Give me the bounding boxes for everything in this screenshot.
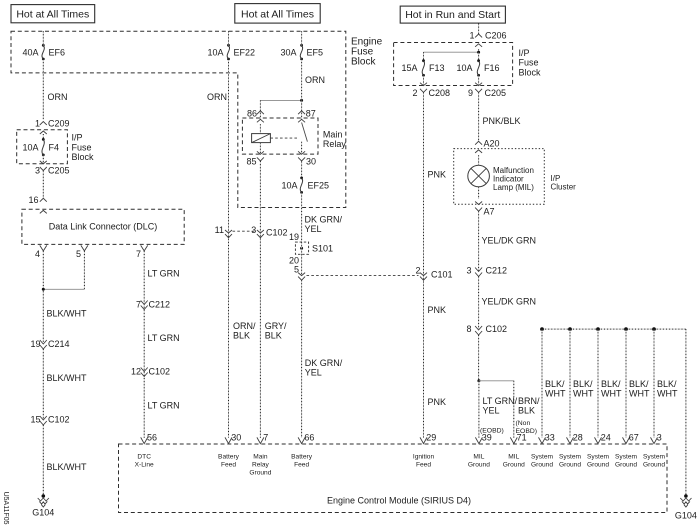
wire relay pin 30 to fuse EF25 (301, 162, 303, 178)
svg-text:56: 56 (147, 433, 157, 443)
ECM pin number 67 (629, 433, 639, 443)
splice S101 cavity 19 (289, 232, 299, 242)
wire C206 to junction inside fuse block (478, 49, 480, 52)
pin number 87 (306, 109, 316, 119)
pin number 3 of C102 (251, 225, 256, 235)
svg-text:BLK/WHT: BLK/WHT (47, 373, 88, 383)
connector name C208 (429, 88, 451, 98)
label LT GRN (lower) (148, 401, 180, 411)
svg-text:Fuse: Fuse (72, 142, 92, 152)
svg-text:3: 3 (251, 225, 256, 235)
ECM pin number 7 (263, 433, 268, 443)
svg-text:10A: 10A (281, 180, 297, 190)
label ORN (EF22 feed) (207, 92, 227, 102)
pin number 15 of C102 (30, 415, 40, 425)
svg-text:S101: S101 (312, 244, 333, 254)
pin number 16 (28, 195, 38, 205)
svg-text:BLK/: BLK/ (545, 379, 565, 389)
svg-text:Ground: Ground (503, 462, 525, 469)
svg-text:PNK: PNK (428, 397, 447, 407)
wire BLK/WHT C102 to ground G104 (42, 425, 44, 496)
svg-text:C214: C214 (48, 339, 70, 349)
label ORN/BLK line2 (233, 330, 250, 340)
junction system ground bus 3 (596, 327, 600, 331)
relay pin 30 connector (chevron pair) (298, 151, 305, 161)
svg-text:4: 4 (35, 249, 40, 259)
svg-text:YEL/DK GRN: YEL/DK GRN (482, 236, 537, 246)
svg-text:Block: Block (351, 57, 376, 68)
wire pin 5 branch to junction (43, 288, 84, 290)
connector C101 pin 2 chevron (420, 273, 427, 281)
ECM pin 71 function label (503, 454, 525, 469)
svg-text:I/P: I/P (72, 133, 83, 143)
connector name C102 (center-left) (149, 366, 171, 376)
svg-text:LT GRN/: LT GRN/ (483, 396, 518, 406)
inline connector C212 pin 3 (double chevron) (475, 268, 482, 277)
svg-text:30A: 30A (280, 47, 296, 57)
ECM pin number 71 (517, 433, 527, 443)
svg-text:EF5: EF5 (307, 47, 324, 57)
label BRN/BLK line2 (518, 405, 535, 415)
svg-text:C102: C102 (486, 324, 508, 334)
label BLK/WHT sys5 line2 (657, 389, 678, 399)
svg-text:WHT: WHT (629, 389, 650, 399)
DLC pin 7 chevron (141, 245, 148, 251)
ECM pin number 24 (601, 433, 611, 443)
wire BLK/WHT system ground 1 (541, 329, 543, 438)
relay actuation dashed link (270, 137, 299, 139)
pin number 7 (136, 249, 141, 259)
label BRN/BLK line1 (518, 396, 540, 406)
svg-text:BLK: BLK (518, 405, 535, 415)
label BLK/WHT sys3 line2 (601, 389, 622, 399)
wire fuse F4 to connector C205 (42, 155, 44, 163)
svg-text:Block: Block (72, 152, 95, 162)
svg-text:C212: C212 (149, 299, 171, 309)
svg-text:C102: C102 (149, 366, 171, 376)
label BLK/WHT sys4 line1 (629, 379, 649, 389)
wire BLK/WHT C214 to C102 (42, 349, 44, 419)
label LT GRN (middle) (148, 333, 180, 343)
label BLK/WHT sys1 line2 (545, 389, 566, 399)
header box "Hot in Run and Start" (400, 6, 505, 23)
ECM pin 66 chevron (298, 437, 305, 443)
wire relay contact to pin 30 (301, 142, 303, 154)
wire BLK/WHT system ground 2 (569, 329, 571, 438)
label ORN (EF6 feed) (48, 92, 68, 102)
svg-text:BRN/: BRN/ (518, 396, 540, 406)
inline connector C214 pin 19 (double chevron) (40, 340, 47, 349)
svg-text:39: 39 (482, 433, 492, 443)
wire fuse F16 to connector C205 (478, 75, 480, 85)
wire C205 to DLC pin 16 (42, 171, 44, 199)
svg-text:F4: F4 (49, 142, 60, 152)
wire ORN from EF5 to relay junction (301, 59, 303, 100)
svg-text:Ignition: Ignition (413, 454, 435, 461)
svg-text:EF25: EF25 (308, 180, 330, 190)
svg-text:15A: 15A (401, 63, 417, 73)
svg-text:C206: C206 (485, 30, 507, 40)
label DK GRN/YEL line1 (upper) (305, 215, 343, 225)
ECM pin number 39 (482, 433, 492, 443)
label "Malfunction Indicator Lamp (MIL)" (493, 166, 534, 192)
pin number 19 of C214 (30, 339, 40, 349)
svg-text:5: 5 (76, 249, 81, 259)
svg-text:LT GRN: LT GRN (148, 269, 180, 279)
svg-text:Ground: Ground (643, 462, 665, 469)
svg-text:Main: Main (253, 454, 268, 461)
svg-text:87: 87 (306, 109, 316, 119)
pin number 2 of C101 (415, 266, 420, 276)
splice S101 (dashed box with dot) (295, 242, 333, 254)
ECM pin 29 chevron (420, 437, 427, 443)
wire band top to fuse EF5 (301, 31, 303, 45)
label BLK/WHT (upper) (47, 309, 88, 319)
svg-text:LT GRN: LT GRN (148, 333, 180, 343)
ECM pin 7 chevron (257, 437, 264, 443)
junction system ground bus 1 (540, 327, 544, 331)
svg-text:Ground: Ground (531, 462, 553, 469)
svg-text:C212: C212 (486, 266, 508, 276)
wire YEL/DK GRN from C212 to C102 (478, 277, 480, 330)
connector name C205 (48, 166, 70, 176)
I/P fuse block (right) dashed box (394, 43, 513, 86)
junction MIL ground split (477, 379, 480, 382)
wire to main relay pin 87 (301, 100, 303, 119)
wire MIL lamp to cluster pin A7 (478, 187, 480, 199)
label BLK/WHT sys2 line1 (573, 379, 593, 389)
junction system ground bus 4 (624, 327, 628, 331)
svg-text:3: 3 (35, 166, 40, 176)
svg-text:BLK: BLK (233, 330, 250, 340)
ECM pin 71 chevron (510, 437, 517, 443)
engine fuse block outline (dashed) (11, 31, 346, 207)
svg-text:7: 7 (263, 433, 268, 443)
svg-text:(Non: (Non (516, 420, 531, 427)
connector C205 pin 3 (chevron pair) (40, 161, 47, 171)
connector C102 tie line (pins 11-3) (233, 230, 256, 232)
svg-text:Feed: Feed (221, 462, 236, 469)
label "Engine Control Module (SIRIUS D4)" (327, 496, 471, 506)
label LT GRN (upper) (148, 269, 180, 279)
wire through splice S101 (301, 242, 303, 254)
svg-text:F13: F13 (429, 63, 445, 73)
wire BLK/WHT from DLC pin 4 down (42, 251, 44, 342)
svg-text:LT GRN: LT GRN (148, 401, 180, 411)
svg-text:System: System (531, 454, 553, 461)
label BLK/WHT (middle) (47, 373, 88, 383)
ECM pin 56 chevron (141, 437, 148, 443)
engine control module dashed box (119, 444, 668, 513)
label "Main Relay" (323, 130, 347, 150)
label DK GRN/YEL line1 (lower) (305, 358, 343, 368)
ECM pin number 66 (304, 433, 314, 443)
svg-text:ORN: ORN (207, 92, 227, 102)
wire junction to fuse F13 (horizontal) (424, 51, 479, 53)
DLC pin 16 connector (chevron pair) (40, 198, 47, 213)
svg-text:Block: Block (519, 67, 542, 77)
svg-text:2: 2 (415, 266, 420, 276)
ECM pin 24 function label (587, 454, 609, 469)
malfunction indicator lamp MIL (bulb symbol) (468, 165, 490, 187)
ECM pin 67 chevron (623, 437, 630, 443)
wire BLK/WHT system ground 4 (625, 329, 627, 438)
svg-text:WHT: WHT (657, 389, 678, 399)
svg-text:C102: C102 (48, 415, 70, 425)
junction of DLC pins 4 and 5 (42, 288, 45, 291)
connector C102 pin 11 chevron (225, 230, 232, 238)
pin name A20 (484, 139, 500, 149)
svg-text:PNK: PNK (428, 305, 447, 315)
svg-text:Engine Control Module (SIRIUS: Engine Control Module (SIRIUS D4) (327, 496, 471, 506)
wire from Hot in Run box to connector C206 (478, 24, 480, 35)
ground G104 (right) (675, 494, 697, 520)
wire band top to fuse EF22 (228, 31, 230, 45)
svg-text:System: System (559, 454, 581, 461)
ECM pin 28 chevron (567, 437, 574, 443)
ECM pin 56 function label (135, 454, 154, 469)
svg-text:ORN: ORN (305, 75, 325, 85)
ECM pin 39 function label (468, 454, 490, 469)
pin number 5 of C101 (294, 265, 299, 275)
wire relay coil bottom lead (259, 143, 261, 154)
wire BLK/WHT bus to ground G104 (right) (685, 329, 687, 496)
I/P fuse block (left) dashed box (17, 130, 68, 164)
wire LT GRN/YEL to ECM pin 39 (478, 381, 480, 438)
wire A20 to MIL lamp (478, 155, 480, 165)
relay pin 87 connector (chevron pair) (298, 111, 305, 123)
pin number 2 of C208 (412, 88, 417, 98)
label DK GRN/YEL line2 (lower) (305, 367, 322, 377)
svg-text:3: 3 (657, 433, 662, 443)
system ground bus (horizontal) (542, 328, 686, 330)
svg-text:A7: A7 (484, 207, 495, 217)
relay pin 85 connector (chevron pair) (257, 151, 264, 161)
svg-text:System: System (587, 454, 609, 461)
fuse F4 10A (22, 138, 59, 156)
svg-text:66: 66 (304, 433, 314, 443)
pin number 7 of C212 (136, 299, 141, 309)
fuse EF22 10A (207, 44, 255, 61)
svg-text:Ground: Ground (468, 462, 490, 469)
svg-text:EF22: EF22 (234, 47, 256, 57)
svg-text:X-Line: X-Line (135, 462, 154, 469)
connector name C101 (431, 270, 453, 280)
svg-text:DK GRN/: DK GRN/ (305, 215, 343, 225)
connector C101 tie line (pins 5-2) (307, 275, 419, 277)
connector name C209 (48, 119, 70, 129)
label BLK/WHT (lower) (47, 462, 88, 472)
wire LT GRN from DLC pin 7 down to ECM pin 56 (143, 251, 145, 438)
wire ORN from EF6 down to connector C209 (42, 59, 44, 120)
label "Engine Fuse Block" (351, 37, 383, 68)
svg-text:10A: 10A (456, 63, 472, 73)
connector name C102 (right) (486, 324, 508, 334)
svg-text:10A: 10A (207, 47, 223, 57)
svg-text:EF6: EF6 (49, 47, 66, 57)
svg-text:C205: C205 (485, 88, 507, 98)
svg-text:System: System (615, 454, 637, 461)
ECM pin 3 function label (643, 454, 665, 469)
pin name A7 (484, 207, 495, 217)
wire S101 to connector C101 (301, 254, 303, 275)
wire relay feed horizontal (86-87 tie) (260, 99, 301, 101)
pin number 86 (247, 109, 257, 119)
svg-text:8: 8 (466, 324, 471, 334)
svg-text:11: 11 (215, 225, 224, 235)
svg-text:30: 30 (231, 433, 241, 443)
svg-text:MIL: MIL (473, 454, 484, 461)
wire DK GRN/YEL from C101 to ECM pin 66 (301, 280, 303, 438)
svg-text:PNK/BLK: PNK/BLK (483, 116, 521, 126)
svg-text:System: System (643, 454, 665, 461)
svg-text:7: 7 (136, 299, 141, 309)
wire BLK/WHT system ground 5 (653, 329, 655, 438)
label ORN (EF5 feed) (305, 75, 325, 85)
svg-text:Fuse: Fuse (519, 58, 539, 68)
svg-text:A20: A20 (484, 139, 500, 149)
fuse EF6 40A (22, 44, 65, 61)
pin number 85 (246, 157, 256, 167)
svg-text:I/P: I/P (519, 48, 530, 58)
ECM pin number 30 (231, 433, 241, 443)
svg-text:Data Link Connector (DLC): Data Link Connector (DLC) (49, 222, 158, 232)
label BLK/WHT sys2 line2 (573, 389, 594, 399)
wire GRY/BLK relay 85 to ECM pin 7 (259, 161, 261, 438)
wire relay coil top lead (259, 124, 261, 133)
svg-text:DTC: DTC (137, 454, 151, 461)
label BLK/WHT sys5 line1 (657, 379, 677, 389)
pin number 12 of C102 (131, 366, 141, 376)
connector C205 pin 9 (chevron pair) (475, 83, 482, 93)
junction feeding F13 and F16 (477, 51, 480, 54)
svg-text:3: 3 (466, 266, 471, 276)
connector C206 pin 1 (chevron pair) (475, 34, 482, 47)
label "I/P Cluster" (551, 174, 577, 192)
label "I/P Fuse Block" (left) (72, 133, 95, 162)
svg-text:BLK/: BLK/ (657, 379, 677, 389)
pin number 1 of C209 (35, 119, 40, 129)
svg-text:Ground: Ground (559, 462, 581, 469)
svg-text:BLK/WHT: BLK/WHT (47, 309, 88, 319)
svg-text:67: 67 (629, 433, 639, 443)
wire junction down to fuse F16 (478, 52, 480, 61)
connector C101 pin 5 chevron (298, 273, 305, 281)
wire branch BRN/BLK to ECM pin 71 (vertical) (513, 381, 515, 438)
pin number 1 of C206 (469, 30, 474, 40)
svg-text:U5A11F05: U5A11F05 (2, 492, 9, 525)
fuse F16 10A (456, 59, 499, 76)
relay coil (Main Relay) (252, 134, 271, 143)
label GRY/BLK line2 (265, 330, 282, 340)
svg-text:ORN: ORN (48, 92, 68, 102)
svg-text:BLK/: BLK/ (601, 379, 621, 389)
pin number 8 of C102 (466, 324, 471, 334)
svg-text:BLK/WHT: BLK/WHT (47, 462, 88, 472)
ECM pin 66 function label (291, 454, 313, 469)
svg-text:24: 24 (601, 433, 611, 443)
svg-text:Relay: Relay (323, 139, 347, 149)
svg-text:Battery: Battery (291, 454, 313, 461)
wire inside I/P fuse block to fuse F4 (42, 134, 44, 139)
pin number 9 of C205 (468, 88, 473, 98)
label (Non (516, 420, 531, 427)
ECM pin number 29 (426, 433, 436, 443)
svg-text:PNK: PNK (428, 170, 447, 180)
svg-text:5: 5 (294, 265, 299, 275)
svg-text:YEL: YEL (305, 224, 322, 234)
label BLK/WHT sys1 line1 (545, 379, 565, 389)
connector name C214 (48, 339, 70, 349)
svg-text:YEL: YEL (483, 405, 500, 415)
svg-text:33: 33 (545, 433, 555, 443)
svg-text:Relay: Relay (252, 462, 270, 469)
pin number 5 (76, 249, 81, 259)
label YEL/DK GRN (upper) (482, 236, 537, 246)
ECM pin 39 chevron (475, 437, 482, 443)
pin number 30 (306, 157, 316, 167)
svg-text:Ground: Ground (587, 462, 609, 469)
ECM pin number 33 (545, 433, 555, 443)
svg-text:7: 7 (136, 249, 141, 259)
svg-text:19: 19 (289, 232, 299, 242)
svg-text:BLK/: BLK/ (629, 379, 649, 389)
svg-text:YEL: YEL (305, 367, 322, 377)
svg-text:71: 71 (517, 433, 527, 443)
connector name C102 (mid) (266, 228, 288, 238)
ECM pin 7 function label (249, 454, 271, 477)
svg-text:15: 15 (30, 415, 40, 425)
wire DK GRN/YEL from EF25 to splice S101 (301, 192, 303, 242)
junction system ground bus 2 (568, 327, 572, 331)
connector name C212 (right) (486, 266, 508, 276)
svg-text:C102: C102 (266, 228, 288, 238)
svg-text:G104: G104 (675, 511, 697, 521)
ECM pin 33 function label (531, 454, 553, 469)
label PNK (upper) (428, 170, 447, 180)
svg-text:1: 1 (35, 119, 40, 129)
svg-text:F16: F16 (484, 63, 500, 73)
ECM pin 33 chevron (539, 437, 546, 443)
svg-text:Hot at All Times: Hot at All Times (241, 8, 314, 20)
wire from C102 to MIL ground split (478, 335, 480, 381)
wire YEL/DK GRN from A7 to C212 (478, 211, 480, 271)
svg-text:C208: C208 (429, 88, 451, 98)
junction at relay feed and EF5 wire (300, 99, 303, 102)
wire branch to ECM pin 71 (horizontal) (479, 380, 514, 382)
svg-text:C209: C209 (48, 119, 70, 129)
ECM pin 3 chevron (651, 437, 658, 443)
svg-text:Ground: Ground (615, 462, 637, 469)
label PNK/BLK (483, 116, 521, 126)
svg-text:Battery: Battery (218, 454, 240, 461)
junction system ground bus 5 (652, 327, 656, 331)
connector name C102 (left) (48, 415, 70, 425)
splice S101 cavity 20 (289, 256, 299, 266)
svg-text:MIL: MIL (508, 454, 519, 461)
inline connector C102 pin 15 (double chevron) (40, 416, 47, 425)
svg-text:Hot in Run and Start: Hot in Run and Start (405, 9, 500, 21)
wire junction down to fuse F13 (423, 52, 425, 61)
pin number 3 of C205 (35, 166, 40, 176)
svg-text:Feed: Feed (294, 462, 309, 469)
ECM pin number 28 (573, 433, 583, 443)
label ORN/BLK line1 (233, 321, 256, 331)
svg-text:C101: C101 (431, 270, 453, 280)
data link connector (DLC) dashed box (22, 209, 184, 244)
main relay dashed box (242, 118, 318, 154)
wire fuse F13 to connector C208 (423, 75, 425, 85)
